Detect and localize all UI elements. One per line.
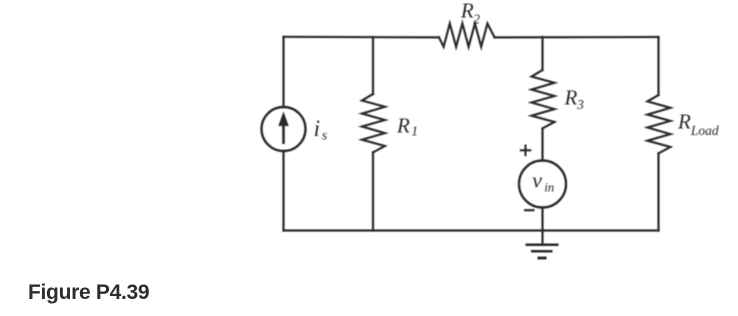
plus sign <box>520 145 532 157</box>
voltage source vin <box>519 161 566 208</box>
wire R3 branch upper <box>541 37 543 70</box>
label is <box>314 116 328 144</box>
wire R1 branch upper <box>372 37 374 94</box>
minus sign <box>524 209 535 211</box>
wire vin to ground <box>541 208 543 244</box>
resistor R2 <box>439 24 495 47</box>
resistor R3 <box>532 70 555 128</box>
svg-text:s: s <box>322 129 328 144</box>
wire R1 branch lower <box>372 152 374 230</box>
wire R3 to vin <box>541 128 543 160</box>
svg-text:Load: Load <box>690 123 719 138</box>
resistor R1 <box>362 94 385 152</box>
wire top-left segment <box>284 36 440 39</box>
svg-text:3: 3 <box>576 97 584 112</box>
wire bottom <box>284 229 659 231</box>
current source is <box>262 107 306 151</box>
svg-text:R: R <box>677 109 691 133</box>
svg-text:1: 1 <box>411 124 418 139</box>
svg-text:R: R <box>460 0 474 23</box>
label RLoad <box>677 109 719 137</box>
svg-text:in: in <box>544 179 554 194</box>
wire right branch upper <box>657 37 659 95</box>
wire left branch lower <box>282 151 284 231</box>
ground <box>526 245 559 258</box>
svg-text:v: v <box>532 167 542 192</box>
label R3 <box>564 86 585 112</box>
svg-text:R: R <box>396 114 410 138</box>
wire left branch upper <box>282 37 284 107</box>
resistor RLoad <box>648 95 671 153</box>
wire top-right segment <box>495 36 659 39</box>
svg-text:i: i <box>314 116 320 141</box>
label R1 <box>396 114 418 139</box>
svg-text:R: R <box>564 86 578 110</box>
figure caption <box>28 281 149 305</box>
svg-text:2: 2 <box>473 11 480 26</box>
wire right branch lower <box>657 153 659 230</box>
label R2 <box>460 0 480 26</box>
